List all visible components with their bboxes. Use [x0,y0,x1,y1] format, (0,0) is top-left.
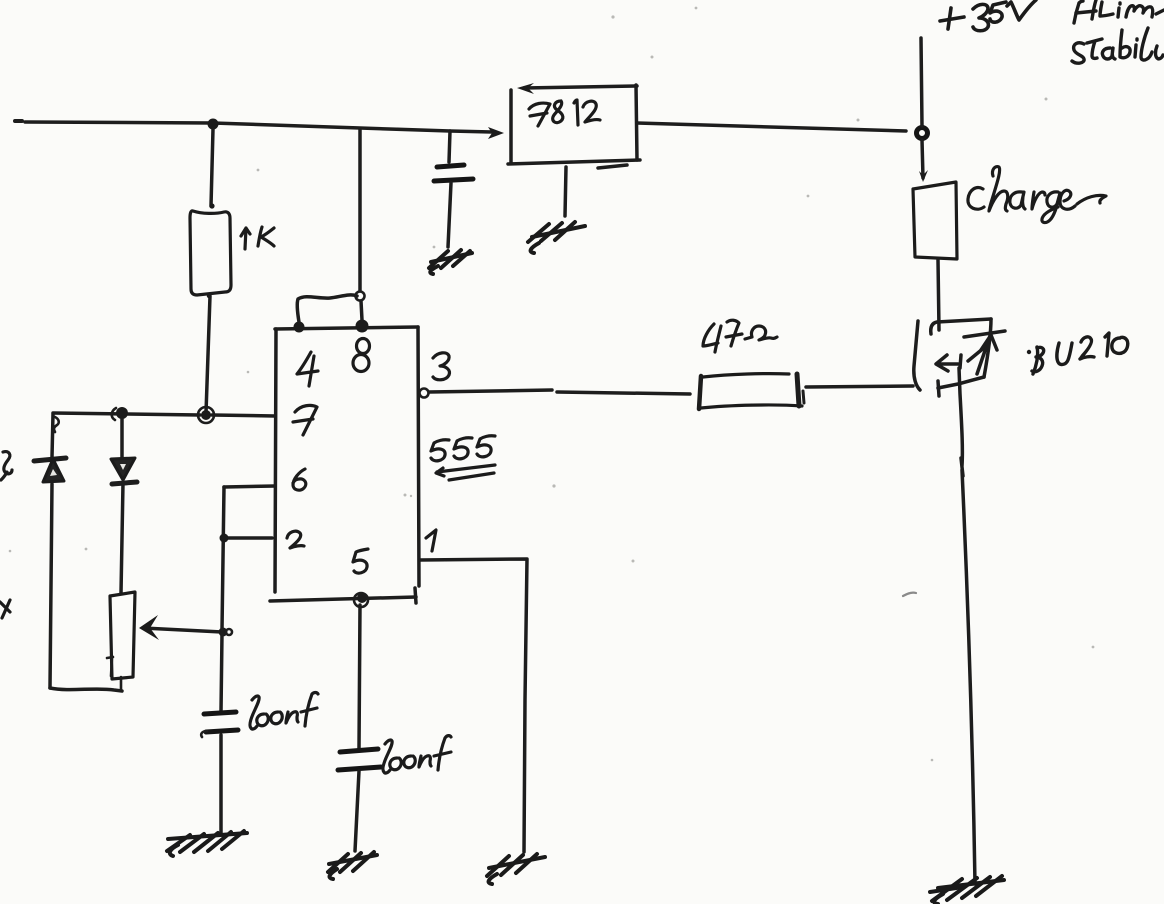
diode D2 (pointing down) triangle [111,458,135,480]
transistor Q1 body top edge [931,319,991,334]
ground G3 [487,854,545,884]
faint scan specks [9,7,1095,762]
wire: pin 3 output [429,390,552,392]
wire: from rail down to R1 [211,129,213,206]
wire: R1 bottom to node [206,296,210,413]
node: junction at 1K tap [208,119,219,130]
node: junction pin7 net [201,410,211,420]
wire: horizontal net to pin 7 [53,413,275,416]
label: STabiL (cut) [1072,28,1163,63]
wire: top supply rail [25,122,492,132]
label: left margin fragments [0,452,12,618]
label: pin 8 [353,339,370,372]
node: pin 4 dot [294,322,305,333]
wire: pin 1 to ground [420,559,527,852]
potentiometer P1 wiper arrow [143,628,222,632]
capacitor C3 input cap wire [449,131,450,162]
wire: left branch vertical (D1) [50,414,53,688]
wire: node down to charge resistor [922,140,923,178]
wire: 7812 output to node [637,123,906,131]
resistor R2 "charge" body [913,182,957,259]
label: pin 7 [293,405,317,435]
wire: charge resistor to transistor [938,260,939,330]
capacitor C3 plates [437,165,464,167]
node: ring above pin 8 [356,292,365,301]
diode D2 cathode bar [112,482,137,484]
transistor Q1 emitter arrow [977,336,990,374]
label: ALim (cut) [1074,0,1164,23]
ground G2 [328,852,377,879]
resistor R3 47ohm body [701,374,802,408]
wire: vertical from rail to pin 8 [360,129,362,320]
ground G1 [167,831,247,856]
wire: 47ohm to transistor gate [806,386,913,387]
stray pen mark near transistor [903,593,916,596]
label: loonf (C1) [250,693,318,730]
label: pin 2 [287,531,304,548]
node: pin 5 dot [357,593,367,603]
wire: C1 to ground [219,735,223,833]
label: pin 1 [426,530,436,551]
label: charge [968,167,1106,223]
label: pin 5 [353,549,368,573]
node: pin 3 ring [420,389,429,398]
wire: D2 branch vertical [121,419,123,593]
node: dot above R1 [209,203,214,208]
ground G4 (C3) [429,250,472,274]
label: 7812 [529,100,600,126]
potentiometer P1 body [110,592,135,679]
wire: C3 to ground [448,183,451,247]
diode D1 triangle [43,459,64,482]
wire: pin 2 horizontal [224,536,272,540]
label: pin 4 [297,352,318,386]
label: +35V [940,0,1036,31]
label: pin 3 [433,353,449,380]
wire: jumper pin4 to pin8 net [297,295,357,322]
potentiometer P1 bottom notch [107,657,121,690]
wire: vertical net pin6/pin2 to C1 [221,487,224,712]
transistor Q1 body right edge [984,319,991,377]
label: pin 6 [293,469,306,490]
node: pin 8 dot [356,320,369,333]
node: pin2 junction dot [220,534,229,543]
wire: pin 6 horizontal [224,486,275,487]
wire: bottom left return [50,688,122,691]
transistor Q1 BU210 [914,319,1005,396]
IC U1 555 box [275,329,276,592]
label: 1K [241,227,274,249]
ground G5 (7812) [528,222,585,253]
node: wiper junction [219,628,228,637]
node: junction blob at diode D2 top [116,407,128,419]
label: 555 [431,436,495,480]
capacitor C1 plates [204,712,236,714]
wire: arrowhead into 7812 input [488,127,504,139]
wire: 7812 ground lead [565,167,566,216]
transistor Q1 collector arrow (K mark) [936,355,961,371]
label: 47ohm [703,320,777,352]
wire: C2 to ground [355,771,359,851]
diode D1 (pointing up) cathode bar [34,458,66,461]
regulator U2 7812 box [509,90,513,163]
label: BU2 10 [1027,333,1128,374]
resistor R1 1K body [190,211,231,295]
transistor Q1 body bottom edge [938,377,984,388]
ground G6 (emitter) [930,876,1004,904]
wire: emitter down to ground [959,368,975,884]
wire: up to +35V [921,38,922,126]
capacitor C2 plates [340,749,378,752]
node: +35V junction ring [917,128,928,139]
label: loonf (C2) [383,736,451,773]
wire: top supply rail left dash [15,119,22,123]
wire: pin 5 down to C2 [359,605,360,749]
wire: D1 top hook [54,417,59,432]
transistor Q1 base bar [914,321,920,390]
